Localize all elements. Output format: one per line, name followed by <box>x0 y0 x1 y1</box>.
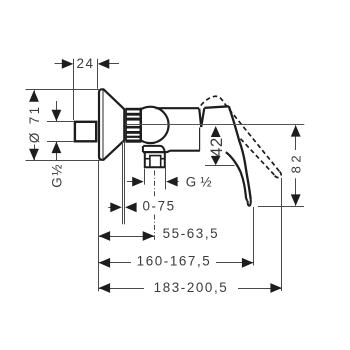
dim 55-63,5 line <box>99 236 155 238</box>
dim 183-200,5 line left <box>99 288 144 290</box>
dim 183-200,5 left arrow <box>99 283 111 293</box>
svg-text:Ø 71: Ø 71 <box>27 104 42 143</box>
svg-text:G½: G½ <box>49 163 64 188</box>
dim G12 left extension top <box>47 121 74 123</box>
handle tip extension line <box>253 207 255 266</box>
svg-text:0-75: 0-75 <box>143 199 176 214</box>
dim 160-167,5 right arrow <box>242 258 254 268</box>
dim D71 line top <box>34 90 36 101</box>
dim D71 extension bottom <box>26 160 101 162</box>
dim 42 top arrow <box>211 126 221 137</box>
svg-text:42: 42 <box>207 137 226 157</box>
dim G12 left top arrow <box>52 110 62 122</box>
dim 82 line bottom <box>295 178 297 205</box>
dim D71 extension top <box>26 89 101 91</box>
dashed tip extension line <box>281 178 283 291</box>
handle tip horizontal reference line <box>258 206 304 208</box>
body right thin edge <box>199 128 201 151</box>
svg-text:183-200,5: 183-200,5 <box>154 280 229 295</box>
outlet dashed centerline <box>154 171 156 199</box>
outlet G12 extension right <box>165 168 167 190</box>
escutcheon cone <box>99 89 124 160</box>
handle lever outer edge <box>229 106 251 199</box>
dim 24 extension left <box>73 59 75 120</box>
body bottom contour upper <box>143 146 164 151</box>
svg-text:55-63,5: 55-63,5 <box>163 226 220 241</box>
escutcheon inner contour line <box>102 91 104 159</box>
body top edge <box>156 107 200 109</box>
outlet hex nut <box>144 153 166 168</box>
outlet G12 left arrow <box>127 181 133 183</box>
notch between body and handle <box>199 108 204 127</box>
outlet G12 extension left <box>144 169 146 185</box>
dim 160-167,5 left arrow <box>99 258 111 268</box>
cartridge dome circle <box>132 107 168 143</box>
dim D71 bottom arrow <box>29 149 39 161</box>
dim 24 right arrow <box>105 63 119 65</box>
dim 24 left arrow <box>55 63 67 65</box>
svg-text:82: 82 <box>288 152 303 174</box>
dim 160-167,5 line right <box>216 262 253 264</box>
center axis line <box>126 124 304 126</box>
dim 42 reference line <box>205 165 235 167</box>
wall plane extension line <box>98 161 100 291</box>
dim 55-63,5 left arrow <box>99 231 111 241</box>
svg-text:160-167,5: 160-167,5 <box>137 253 212 268</box>
dim 24 extension right <box>97 59 99 89</box>
handle cap top edge <box>204 106 229 108</box>
dim 0-75 right arrow <box>133 207 136 209</box>
dim 183-200,5 line right <box>238 288 282 290</box>
dim G12 left line top <box>56 101 58 121</box>
dim 42 bottom arrow <box>211 156 221 165</box>
dim D71 top arrow <box>29 90 39 102</box>
handle dashed open position upper edge <box>201 96 280 171</box>
svg-text:24: 24 <box>76 56 94 71</box>
dim G12 left extension bottom <box>47 141 74 143</box>
dim 183-200,5 right arrow <box>270 283 282 293</box>
knurled connector nut <box>125 108 141 143</box>
dome joint line <box>140 108 142 143</box>
wall supply square pipe <box>75 122 96 142</box>
handle dashed tip <box>274 172 281 178</box>
outlet collar left edge <box>142 146 144 152</box>
outlet G12 right arrow <box>172 181 179 183</box>
dim 82 top arrow <box>291 125 301 137</box>
handle lever inner edge <box>226 152 248 201</box>
handle tip <box>248 199 251 206</box>
dim D71 line bottom <box>34 145 36 161</box>
dim 0-75 left arrow <box>108 207 112 209</box>
dim 82 line top <box>295 125 297 150</box>
dim 55-63,5 right arrow <box>143 231 155 241</box>
svg-text:G ½: G ½ <box>186 174 212 189</box>
dim G12 left bottom arrow <box>52 142 62 154</box>
dim 160-167,5 line left <box>99 262 131 264</box>
dim G12 left line bottom <box>56 142 58 160</box>
dim 82 bottom arrow <box>291 194 301 206</box>
handle dashed lower edge <box>238 136 275 175</box>
dim 0-75 reference double lines <box>122 141 124 224</box>
body underside edge <box>143 151 200 152</box>
